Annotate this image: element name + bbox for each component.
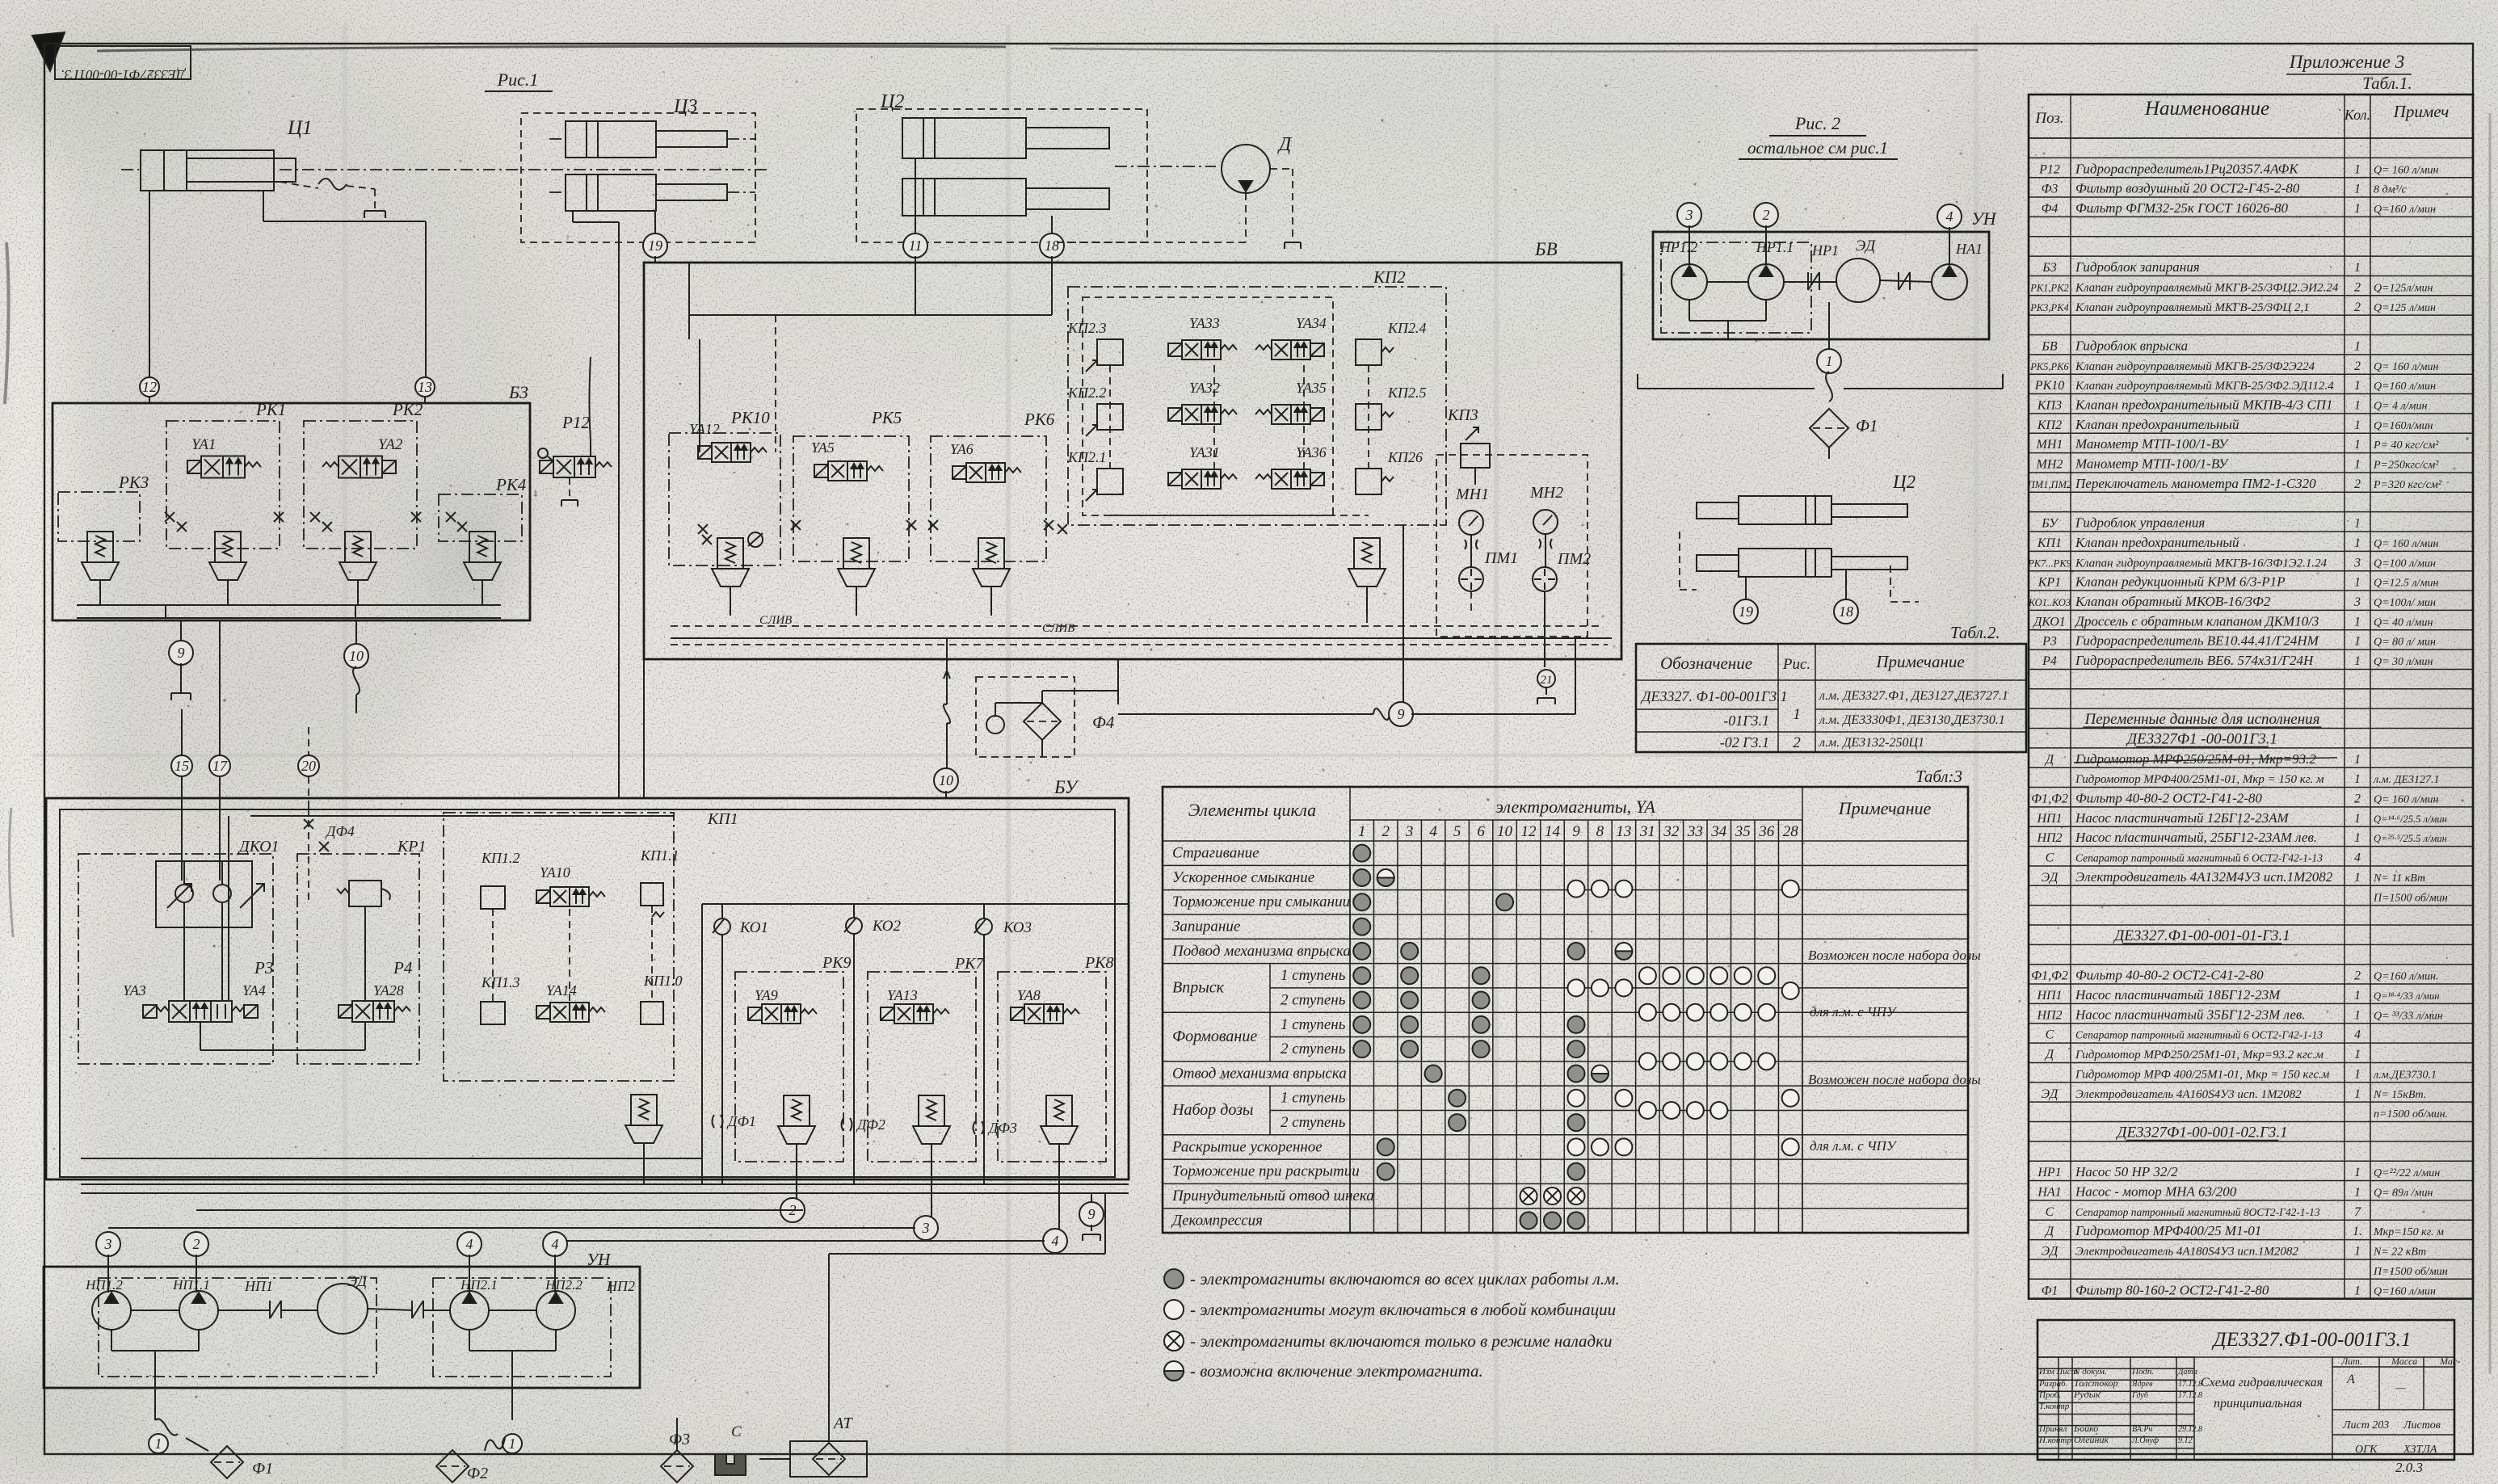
svg-text:А: А	[2346, 1373, 2355, 1386]
svg-text:Q= 4 л/мин: Q= 4 л/мин	[2374, 401, 2427, 413]
svg-text:1 ступень: 1 ступень	[1281, 967, 1346, 984]
svg-text:1: 1	[2354, 635, 2361, 649]
svg-text:Ф1: Ф1	[1856, 416, 1878, 435]
svg-text:РК4: РК4	[495, 475, 527, 494]
svg-text:Насос 50 НР 32/2: Насос 50 НР 32/2	[2075, 1164, 2178, 1179]
svg-text:1: 1	[2354, 753, 2361, 767]
svg-text:Гидрораспределитель ВЕ6. 574х3: Гидрораспределитель ВЕ6. 574х31/Г24Н	[2075, 653, 2315, 668]
svg-text:Ф3: Ф3	[669, 1431, 690, 1448]
svg-text:КП1.2: КП1.2	[481, 850, 519, 866]
svg-text:2: 2	[2354, 792, 2361, 806]
svg-text:Q=12.5 л/мин: Q=12.5 л/мин	[2374, 578, 2438, 590]
svg-text:10: 10	[349, 648, 364, 664]
svg-text:2: 2	[2354, 969, 2361, 983]
svg-text:Приложение 3: Приложение 3	[2289, 52, 2405, 72]
svg-text:КО1..КО3: КО1..КО3	[2028, 597, 2071, 608]
svg-text:КП2: КП2	[1373, 267, 1406, 287]
svg-text:Насос пластинчатый 12БГ12-23АМ: Насос пластинчатый 12БГ12-23АМ	[2075, 810, 2289, 826]
svg-text:3: 3	[1405, 823, 1414, 840]
svg-text:Табл.1.: Табл.1.	[2362, 74, 2412, 93]
svg-text:Гидромотор МРФ400/25М1-01, Мкр: Гидромотор МРФ400/25М1-01, Мкр = 150 кг.…	[2075, 773, 2324, 786]
svg-text:п=1500 об/мин.: п=1500 об/мин.	[2374, 1108, 2448, 1120]
svg-text:РК5: РК5	[871, 408, 902, 427]
svg-text:ДЕ3327. Ф1-00-001Г3.1: ДЕ3327. Ф1-00-001Г3.1	[1640, 688, 1788, 704]
svg-text:Р4: Р4	[393, 958, 413, 977]
svg-text:1: 1	[2354, 202, 2361, 216]
svg-text:1: 1	[2354, 1166, 2361, 1179]
svg-text:Запирание: Запирание	[1172, 919, 1240, 935]
svg-text:Фильтр 80-160-2 ОСТ2-Г41-2-8: Фильтр 80-160-2 ОСТ2-Г41-2-80	[2075, 1282, 2269, 1297]
svg-text:Q= 160 л/мин: Q= 160 л/мин	[2374, 164, 2438, 176]
svg-text:Примечание: Примечание	[1838, 798, 1932, 818]
svg-text:НП1: НП1	[2036, 989, 2062, 1003]
svg-text:Электродвигатель 4А160S4У3 исп: Электродвигатель 4А160S4У3 исп. 1М2082	[2075, 1088, 2302, 1101]
svg-text:1: 1	[2354, 183, 2361, 196]
svg-text:Толстокор: Толстокор	[2074, 1377, 2117, 1389]
svg-text:1: 1	[1826, 353, 1833, 369]
svg-text:Гидроблок запирания: Гидроблок запирания	[2075, 259, 2200, 275]
svg-text:Гидрораспределитель1Рц20357.4А: Гидрораспределитель1Рц20357.4АФК	[2075, 161, 2299, 176]
svg-text:МН2: МН2	[2036, 458, 2063, 472]
svg-text:Ядрев: Ядрев	[2131, 1380, 2153, 1389]
svg-text:РК1,РК2: РК1,РК2	[2029, 282, 2069, 293]
svg-text:НП2.2: НП2.2	[545, 1277, 582, 1293]
svg-text:Элементы цикла: Элементы цикла	[1188, 800, 1316, 820]
svg-text:Гидромотор МРФ250/25М1-01, Мкр: Гидромотор МРФ250/25М1-01, Мкр=93.2 кгс.…	[2075, 1049, 2323, 1062]
svg-text:НП2: НП2	[2036, 831, 2062, 845]
svg-text:Лист 203: Лист 203	[2342, 1419, 2389, 1431]
svg-text:19: 19	[648, 238, 662, 254]
svg-text:КП2: КП2	[2037, 418, 2062, 432]
svg-text:1: 1	[2354, 162, 2361, 176]
svg-text:Ц3: Ц3	[673, 96, 697, 117]
svg-text:КП2.1: КП2.1	[1067, 449, 1106, 465]
svg-text:Гидроблок впрыска: Гидроблок впрыска	[2075, 338, 2188, 353]
svg-text:P=320 кгс/см²: P=320 кгс/см²	[2373, 479, 2442, 491]
svg-text:9: 9	[1088, 1206, 1096, 1222]
svg-text:Клапан гидроуправляемый МКГВ-2: Клапан гидроуправляемый МКГВ-25/3Ф2Э224	[2075, 360, 2315, 373]
svg-text:- возможна включение э: - возможна включение электромагнита.	[1190, 1361, 1483, 1381]
svg-text:YA1: YA1	[191, 436, 216, 453]
svg-text:1: 1	[2354, 1008, 2361, 1022]
svg-text:17.12.8: 17.12.8	[2178, 1380, 2202, 1389]
svg-text:YA3: YA3	[123, 982, 146, 998]
svg-text:32: 32	[1663, 823, 1680, 840]
svg-text:Q=¹⁴·⁶/25.5 л/мин: Q=¹⁴·⁶/25.5 л/мин	[2374, 813, 2447, 825]
svg-text:КО2: КО2	[872, 918, 901, 935]
svg-text:Дата: Дата	[2177, 1368, 2197, 1377]
svg-text:РК10: РК10	[2034, 379, 2064, 393]
svg-text:МН2: МН2	[1529, 484, 1563, 502]
svg-text:КО1: КО1	[739, 919, 768, 936]
svg-text:4: 4	[1429, 823, 1437, 840]
svg-text:П=1500 об/мин: П=1500 об/мин	[2373, 892, 2448, 904]
svg-text:1: 1	[155, 1436, 162, 1452]
svg-text:1: 1	[2354, 615, 2361, 628]
svg-text:1: 1	[2354, 989, 2361, 1003]
svg-text:YA4: YA4	[242, 982, 266, 998]
svg-text:НР1: НР1	[2037, 1166, 2061, 1179]
svg-text:Примечание: Примечание	[1875, 652, 1964, 671]
svg-text:Р3: Р3	[2042, 635, 2057, 649]
svg-text:1: 1	[2354, 399, 2361, 413]
svg-text:Рис.1: Рис.1	[497, 69, 539, 90]
svg-text:Ф2: Ф2	[467, 1465, 488, 1482]
svg-text:18: 18	[1839, 603, 1853, 620]
svg-text:Фильтр ФГМ32-25к ГОСТ 16026-80: Фильтр ФГМ32-25к ГОСТ 16026-80	[2075, 200, 2288, 216]
svg-text:КО3: КО3	[1003, 919, 1032, 936]
svg-text:НР1: НР1	[1811, 242, 1839, 259]
svg-text:Фильтр 40-80-2 ОСТ2-С41-2-80: Фильтр 40-80-2 ОСТ2-С41-2-80	[2075, 968, 2264, 983]
svg-text:Q=²⁵·⁵/25.5 л/мин: Q=²⁵·⁵/25.5 л/мин	[2374, 833, 2447, 844]
svg-text:12: 12	[142, 379, 157, 395]
svg-text:Возможен после набора дозы: Возможен после набора дозы	[1808, 948, 1981, 963]
svg-text:ПМ1,ПМ2: ПМ1,ПМ2	[2027, 479, 2072, 490]
svg-text:Т.контр: Т.контр	[2039, 1402, 2070, 1411]
svg-text:1: 1	[2354, 1245, 2361, 1259]
svg-text:1: 1	[2354, 772, 2361, 786]
svg-text:Клапан редукционный КРМ 6/3-Р: Клапан редукционный КРМ 6/3-Р1Р	[2075, 574, 2286, 590]
svg-text:2: 2	[1381, 823, 1390, 840]
svg-text:4: 4	[1052, 1233, 1059, 1249]
svg-text:РК6: РК6	[1024, 410, 1055, 429]
svg-text:Ф1: Ф1	[2042, 1284, 2059, 1297]
svg-text:Клапан предохранительный: Клапан предохранительный	[2075, 417, 2239, 432]
svg-text:РК3: РК3	[118, 473, 149, 492]
svg-text:БУ: БУ	[1053, 777, 1079, 797]
svg-text:КП2.3: КП2.3	[1067, 320, 1106, 336]
svg-text:2: 2	[2354, 280, 2361, 294]
svg-text:Отвод механизма впрыска: Отвод механизма впрыска	[1172, 1065, 1347, 1082]
svg-text:N= 11 кВт: N= 11 кВт	[2373, 872, 2425, 885]
svg-text:ЭД: ЭД	[1856, 238, 1876, 254]
svg-text:3: 3	[104, 1236, 112, 1252]
svg-text:N= 15кВт.: N= 15кВт.	[2373, 1089, 2426, 1101]
svg-text:КП3: КП3	[1447, 406, 1478, 424]
svg-text:Кол.: Кол.	[2344, 107, 2370, 123]
svg-text:1: 1	[2354, 831, 2361, 845]
svg-text:л.м.ДЕ3730.1: л.м.ДЕ3730.1	[2373, 1069, 2437, 1081]
svg-text:- электромагниты могут вклю: - электромагниты могут включаться в любо…	[1190, 1300, 1616, 1319]
svg-text:Сепаратор патронный магнитный: Сепаратор патронный магнитный 6 ОСТ2-Г42…	[2075, 852, 2323, 864]
svg-text:1: 1	[2354, 1087, 2361, 1101]
svg-text:2: 2	[2354, 301, 2361, 314]
svg-text:15: 15	[175, 758, 189, 774]
svg-text:YA36: YA36	[1296, 444, 1327, 460]
svg-text:ДФ2: ДФ2	[856, 1116, 885, 1133]
svg-text:1: 1	[2354, 1067, 2361, 1081]
svg-text:Изм Лист: Изм Лист	[2038, 1367, 2078, 1377]
svg-text:1.: 1.	[2353, 1225, 2362, 1238]
svg-text:Клапан предохранительный: Клапан предохранительный	[2075, 535, 2239, 550]
svg-text:Принудительный отвод шнека: Принудительный отвод шнека	[1171, 1188, 1374, 1204]
svg-text:2.0.3: 2.0.3	[2395, 1460, 2423, 1475]
svg-text:Листов: Листов	[2403, 1419, 2441, 1431]
svg-text:Табл:3: Табл:3	[1916, 767, 1962, 786]
svg-text:Схема гидравлическая: Схема гидравлическая	[2201, 1376, 2323, 1389]
svg-text:YA33: YA33	[1189, 315, 1220, 331]
svg-text:Клапан гидроуправляемый МКГВ-2: Клапан гидроуправляемый МКГВ-25/3ФЦ 2,1	[2075, 301, 2310, 314]
svg-text:АТ: АТ	[832, 1415, 853, 1432]
svg-text:1: 1	[509, 1436, 516, 1452]
svg-text:ХЗТЛА: ХЗТЛА	[2403, 1444, 2437, 1456]
svg-text:Ф1: Ф1	[252, 1460, 273, 1478]
svg-text:НА1: НА1	[2037, 1186, 2061, 1200]
svg-text:21: 21	[1541, 674, 1553, 687]
svg-text:Обозначение: Обозначение	[1660, 654, 1752, 673]
svg-text:КП1.3: КП1.3	[481, 974, 519, 990]
svg-text:2 ступень: 2 ступень	[1281, 991, 1346, 1008]
svg-text:9: 9	[178, 645, 185, 661]
svg-text:ДЕ3327.Ф1-00-001-01-Г3.1: ДЕ3327.Ф1-00-001-01-Г3.1	[2113, 927, 2290, 944]
svg-text:Д: Д	[1277, 134, 1293, 155]
svg-text:1: 1	[2354, 458, 2361, 472]
svg-text:YA31: YA31	[1189, 444, 1220, 460]
svg-text:13: 13	[418, 379, 432, 395]
svg-text:ДФ3: ДФ3	[987, 1120, 1017, 1136]
svg-text:Q=100л/ мин: Q=100л/ мин	[2374, 597, 2436, 609]
svg-text:4: 4	[2354, 1028, 2361, 1042]
svg-text:8 дм³/c: 8 дм³/c	[2374, 184, 2408, 196]
svg-text:Б3: Б3	[2042, 261, 2056, 275]
svg-text:Формование: Формование	[1172, 1028, 1257, 1045]
svg-text:л.м. ДЕ3327.Ф1, ДЕ3127,ДЕ3727.: л.м. ДЕ3327.Ф1, ДЕ3127,ДЕ3727.1	[1819, 689, 2008, 703]
svg-text:Табл.2.: Табл.2.	[1950, 623, 2000, 642]
svg-text:НП1: НП1	[244, 1278, 273, 1294]
svg-text:Возможен после набора дозы: Возможен после набора дозы	[1808, 1072, 1981, 1087]
svg-text:Набор дозы: Набор дозы	[1171, 1101, 1253, 1119]
svg-text:Декомпрессия: Декомпрессия	[1171, 1212, 1263, 1229]
svg-text:8: 8	[1596, 823, 1604, 840]
svg-text:1 ступень: 1 ступень	[1281, 1016, 1346, 1033]
svg-text:Мас-: Мас-	[2439, 1356, 2460, 1367]
svg-text:Q=²²/22 л/мин: Q=²²/22 л/мин	[2374, 1167, 2440, 1179]
svg-text:YA5: YA5	[811, 439, 835, 456]
svg-text:НП2: НП2	[2036, 1008, 2062, 1022]
svg-text:Насос пластинчатый, 25БГ12-23А: Насос пластинчатый, 25БГ12-23АМ лев.	[2075, 830, 2317, 845]
svg-text:Подп.: Подп.	[2131, 1367, 2154, 1377]
svg-text:БВ: БВ	[1534, 239, 1558, 259]
svg-text:Манометр МТП-100/1-ВУ: Манометр МТП-100/1-ВУ	[2075, 436, 2230, 452]
svg-text:Ц1: Ц1	[287, 117, 313, 139]
svg-text:Q= 40 л/мин: Q= 40 л/мин	[2374, 616, 2433, 628]
svg-text:Клапан гидроуправляемый МКГВ-2: Клапан гидроуправляемый МКГВ-25/3Ф2.ЭД11…	[2075, 380, 2334, 393]
svg-text:КП2.4: КП2.4	[1387, 320, 1426, 336]
svg-text:2: 2	[2354, 359, 2361, 373]
svg-text:1: 1	[2354, 339, 2361, 353]
svg-text:РК5,РК6: РК5,РК6	[2029, 361, 2069, 372]
svg-text:ЭД: ЭД	[2042, 871, 2059, 885]
svg-text:9: 9	[1398, 706, 1405, 722]
svg-text:Страгивание: Страгивание	[1172, 845, 1260, 862]
svg-text:Q=160л/мин: Q=160л/мин	[2374, 420, 2433, 432]
svg-text:5: 5	[1453, 823, 1461, 840]
svg-text:УН: УН	[1971, 208, 1997, 229]
svg-text:YA6: YA6	[950, 441, 974, 457]
svg-text:N= 22 кВт: N= 22 кВт	[2373, 1246, 2426, 1259]
svg-text:КР1: КР1	[2038, 576, 2061, 590]
svg-text:Электродвигатель 4А132М4У3 исп: Электродвигатель 4А132М4У3 исп.1М2082	[2075, 869, 2333, 885]
svg-text:РК1: РК1	[255, 400, 286, 419]
svg-text:Фильтр воздушный 20 ОСТ2-Г45-2: Фильтр воздушный 20 ОСТ2-Г45-2-80	[2075, 181, 2300, 196]
svg-text:Лит.: Лит.	[2340, 1356, 2362, 1367]
svg-text:Д: Д	[2044, 1048, 2054, 1062]
svg-text:ЭД: ЭД	[2042, 1087, 2059, 1101]
svg-text:Б3: Б3	[508, 382, 528, 402]
svg-text:3: 3	[2353, 595, 2361, 609]
svg-text:Бойко: Бойко	[2073, 1423, 2098, 1434]
svg-text:2: 2	[2354, 477, 2361, 491]
svg-text:—: —	[2395, 1382, 2406, 1394]
svg-text:Гидромотор МРФ400/25 М1-01: Гидромотор МРФ400/25 М1-01	[2075, 1223, 2261, 1238]
svg-text:-01Г3.1: -01Г3.1	[1723, 713, 1769, 729]
svg-text:для л.м. с ЧПУ: для л.м. с ЧПУ	[1810, 1138, 1898, 1154]
svg-text:Дроссель с обратным клапаном Д: Дроссель с обратным клапаном ДКМ10/3	[2074, 613, 2319, 628]
svg-text:Н.контр: Н.контр	[2038, 1436, 2071, 1445]
svg-text:Клапан гидроуправляемый МКГВ-2: Клапан гидроуправляемый МКГВ-25/3ФЦ2.ЭИ2…	[2075, 281, 2339, 294]
svg-text:N докум.: N докум.	[2073, 1367, 2107, 1377]
svg-text:ЭД: ЭД	[347, 1273, 368, 1290]
svg-text:НП1.2: НП1.2	[85, 1277, 123, 1293]
svg-text:КР1: КР1	[397, 838, 427, 856]
svg-text:28: 28	[1783, 823, 1799, 840]
svg-text:10: 10	[939, 772, 953, 788]
svg-text:ДКО1: ДКО1	[238, 838, 280, 856]
svg-text:14: 14	[1545, 823, 1561, 840]
svg-text:НП2: НП2	[606, 1278, 635, 1294]
svg-text:Разраб.: Разраб.	[2038, 1379, 2067, 1389]
svg-text:1: 1	[2354, 261, 2361, 275]
svg-text:-02 Г3.1: -02 Г3.1	[1720, 734, 1769, 750]
svg-text:29.12.8: 29.12.8	[2178, 1425, 2202, 1434]
svg-text:YA9: YA9	[755, 987, 778, 1003]
svg-text:С: С	[2046, 1205, 2054, 1219]
svg-text:P= 40 кгс/см²: P= 40 кгс/см²	[2373, 439, 2439, 452]
svg-text:1: 1	[2354, 379, 2361, 393]
svg-text:ЭД: ЭД	[2042, 1245, 2059, 1259]
svg-text:принципиальная: принципиальная	[2214, 1397, 2302, 1410]
svg-text:электромагниты, YA: электромагниты, YA	[1495, 797, 1655, 817]
svg-text:4: 4	[2354, 851, 2361, 865]
svg-text:Ф1,Ф2: Ф1,Ф2	[2031, 792, 2068, 806]
svg-text:Торможение при раскрытии: Торможение при раскрытии	[1172, 1163, 1360, 1180]
svg-text:3: 3	[2353, 556, 2361, 570]
svg-text:YA2: YA2	[378, 436, 403, 453]
svg-text:1: 1	[2354, 418, 2361, 432]
svg-text:1: 1	[2354, 438, 2361, 452]
svg-text:КП1: КП1	[2037, 536, 2062, 550]
svg-text:35: 35	[1735, 823, 1751, 840]
svg-text:10: 10	[1497, 823, 1513, 840]
svg-text:Гидроблок управления: Гидроблок управления	[2075, 515, 2205, 531]
svg-text:1 ступень: 1 ступень	[1281, 1090, 1346, 1107]
svg-text:1: 1	[1793, 706, 1801, 723]
svg-text:ДКО1: ДКО1	[2032, 615, 2066, 628]
svg-text:ПМ2: ПМ2	[1557, 550, 1591, 568]
svg-text:4: 4	[552, 1236, 559, 1252]
svg-text:РК10: РК10	[730, 408, 770, 427]
svg-text:Q= 89л /мин: Q= 89л /мин	[2374, 1188, 2433, 1200]
svg-text:Рудык: Рудык	[2073, 1389, 2101, 1400]
svg-text:НП1: НП1	[2036, 812, 2062, 826]
svg-text:1: 1	[2354, 517, 2361, 531]
svg-text:л.м. ДЕ3127.1: л.м. ДЕ3127.1	[2373, 774, 2440, 786]
svg-text:1: 1	[2354, 1186, 2361, 1200]
svg-text:Q= 160 л/мин: Q= 160 л/мин	[2374, 361, 2438, 373]
svg-text:12: 12	[1521, 823, 1537, 840]
svg-text:2 ступень: 2 ступень	[1281, 1040, 1346, 1057]
svg-text:Q= ³³/33 л/мин: Q= ³³/33 л/мин	[2374, 1010, 2443, 1022]
svg-text:YA12: YA12	[689, 421, 720, 437]
svg-text:ДЕ3327Ф1 -00-001Г3.1: ДЕ3327Ф1 -00-001Г3.1	[2126, 730, 2277, 747]
svg-text:Q=125л/мин: Q=125л/мин	[2374, 282, 2433, 294]
svg-text:РК7...РК9: РК7...РК9	[2027, 557, 2071, 569]
svg-text:YA8: YA8	[1017, 987, 1041, 1003]
svg-text:Рис. 2: Рис. 2	[1794, 113, 1840, 133]
svg-text:18: 18	[1045, 238, 1059, 254]
svg-text:ВА.Рч: ВА.Рч	[2132, 1425, 2152, 1434]
svg-text:2: 2	[1763, 207, 1770, 223]
svg-text:СЛИВ: СЛИВ	[1042, 622, 1074, 635]
svg-text:Q=160 л/мин: Q=160 л/мин	[2374, 1285, 2436, 1297]
svg-text:Q=160 л/мин: Q=160 л/мин	[2374, 204, 2436, 216]
svg-text:YA10: YA10	[540, 864, 570, 881]
svg-text:остальное см рис.1: остальное см рис.1	[1747, 138, 1888, 158]
svg-text:1: 1	[2354, 871, 2361, 885]
svg-text:17.12.8: 17.12.8	[2178, 1391, 2202, 1400]
svg-text:Клапан гидроуправляемый МКГВ-1: Клапан гидроуправляемый МКГВ-16/3Ф1Э2.1.…	[2075, 557, 2328, 570]
svg-text:ПМ1: ПМ1	[1484, 549, 1518, 567]
svg-text:ДЕ3327.Ф1-00-001Г3.1: ДЕ3327.Ф1-00-001Г3.1	[2212, 1329, 2412, 1351]
svg-text:БВ: БВ	[2041, 339, 2057, 353]
svg-text:Р4: Р4	[2042, 654, 2057, 668]
svg-text:31: 31	[1639, 823, 1655, 840]
svg-text:Насос пластинчатый 35БГ12-23М: Насос пластинчатый 35БГ12-23М лев.	[2075, 1007, 2306, 1022]
svg-text:Рис.: Рис.	[1782, 656, 1810, 673]
svg-text:Гидромотор МРФ 400/25М1-01, Мк: Гидромотор МРФ 400/25М1-01, Мкр = 150 кг…	[2075, 1068, 2330, 1081]
svg-text:КП1: КП1	[707, 810, 738, 828]
svg-text:Поз.: Поз.	[2034, 110, 2063, 127]
svg-text:2 ступень: 2 ступень	[1281, 1114, 1346, 1131]
svg-text:7: 7	[2354, 1205, 2361, 1219]
svg-text:Торможение при смыкании: Торможение при смыкании	[1172, 893, 1350, 910]
svg-text:13: 13	[1616, 823, 1631, 840]
svg-text:2: 2	[1793, 734, 1801, 751]
svg-text:НП2.1: НП2.1	[460, 1277, 498, 1293]
svg-text:1: 1	[2354, 536, 2361, 550]
svg-text:1: 1	[1358, 823, 1366, 840]
svg-text:Переключатель манометра ПМ2-1-: Переключатель манометра ПМ2-1-С320	[2075, 476, 2316, 491]
svg-text:YA13: YA13	[887, 987, 918, 1003]
svg-text:Ф3: Ф3	[2042, 183, 2059, 196]
svg-text:2: 2	[193, 1236, 200, 1252]
svg-text:БУ: БУ	[2041, 517, 2059, 531]
svg-text:1: 1	[2354, 654, 2361, 668]
svg-text:РК3,РК4: РК3,РК4	[2029, 302, 2069, 313]
svg-text:КП1.0: КП1.0	[643, 973, 682, 989]
svg-text:ДЕ3327Ф1-00-001-02.Г3.1: ДЕ3327Ф1-00-001-02.Г3.1	[2115, 1124, 2287, 1141]
svg-text:ДЕ3327Ф1-00-001Г3.: ДЕ3327Ф1-00-001Г3.	[61, 67, 187, 82]
svg-text:Д: Д	[2044, 1225, 2054, 1238]
svg-text:КП1.1: КП1.1	[640, 847, 679, 864]
svg-text:1: 1	[2354, 1048, 2361, 1062]
svg-text:КП26: КП26	[1387, 449, 1423, 465]
svg-text:Q= 80 л/ мин: Q= 80 л/ мин	[2374, 637, 2436, 649]
svg-text:33: 33	[1687, 823, 1703, 840]
svg-text:Q=125 л/мин: Q=125 л/мин	[2374, 302, 2436, 314]
svg-text:19: 19	[1739, 603, 1753, 620]
svg-text:4: 4	[466, 1236, 473, 1252]
